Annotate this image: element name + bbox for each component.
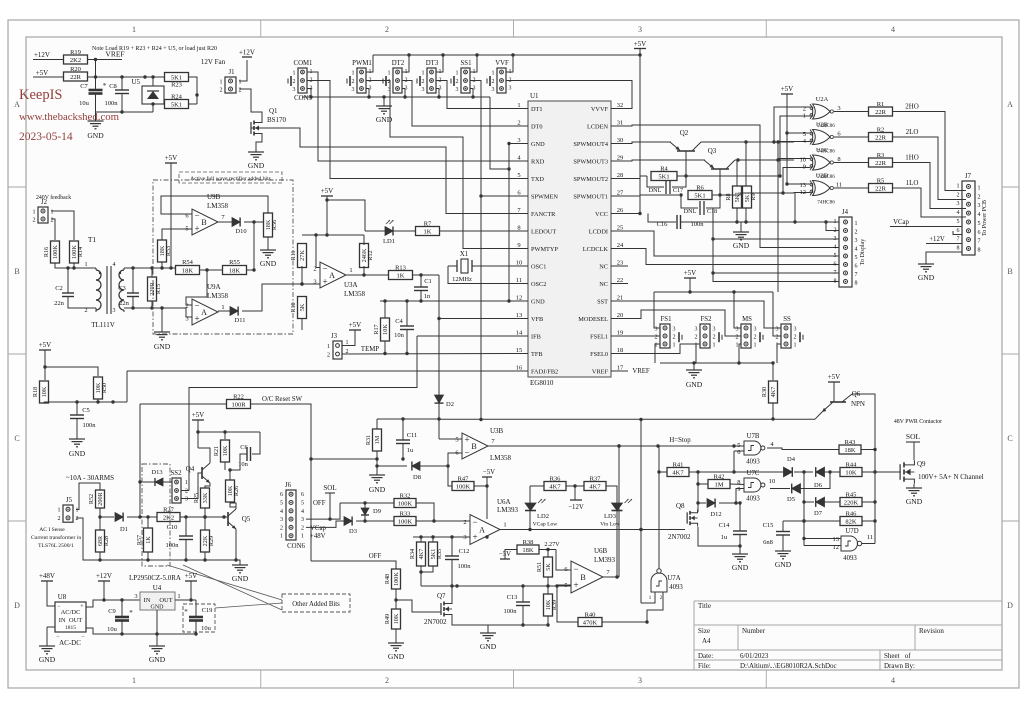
wire R36 left <box>530 485 544 487</box>
svg-text:3: 3 <box>185 497 188 503</box>
ground R49 <box>388 639 405 661</box>
svg-text:SOL: SOL <box>906 432 921 441</box>
wire xor B4 input <box>778 141 810 144</box>
resistor R38 <box>517 539 539 554</box>
wire +5V rect drop <box>170 163 172 268</box>
resistor R1 <box>869 101 893 116</box>
svg-text:7: 7 <box>957 237 960 243</box>
svg-text:R17: R17 <box>373 324 380 334</box>
capacitor C8 <box>105 83 130 107</box>
svg-text:2: 2 <box>463 519 466 526</box>
svg-text:R19: R19 <box>70 49 81 56</box>
svg-text:1: 1 <box>132 25 136 34</box>
diode D7 <box>814 497 824 517</box>
svg-text:Active full wave rectifier add: Active full wave rectifier added bits <box>190 175 271 182</box>
wire U3B out H-Stop <box>488 444 744 447</box>
svg-text:100n: 100n <box>458 563 472 570</box>
svg-text:33K: 33K <box>202 492 209 503</box>
svg-text:T1: T1 <box>88 235 97 244</box>
wire C10 bottom <box>185 540 187 561</box>
wire T1 top node <box>55 263 96 270</box>
svg-text:GND: GND <box>87 131 104 140</box>
wire spwm pulldown stub <box>794 193 796 222</box>
svg-text:22n: 22n <box>119 300 130 307</box>
wire Q7 gate wire <box>396 600 441 612</box>
svg-text:74HC86: 74HC86 <box>817 200 835 206</box>
crystal X1 <box>452 250 472 283</box>
wire U4 out wire <box>175 598 196 601</box>
svg-text:OSC1: OSC1 <box>531 263 546 270</box>
svg-text:VVVF: VVVF <box>591 106 609 113</box>
wire FS1 pin3 drop <box>654 292 660 328</box>
wire R42 out <box>730 483 744 486</box>
svg-text:+5V: +5V <box>36 69 49 77</box>
svg-text:SPWMEN: SPWMEN <box>531 193 558 200</box>
svg-text:13: 13 <box>516 312 523 319</box>
wire R47 right <box>474 484 489 487</box>
svg-text:6: 6 <box>855 264 858 270</box>
connector SS2 <box>171 470 188 503</box>
svg-text:4: 4 <box>834 245 837 251</box>
svg-text:9: 9 <box>803 163 806 170</box>
wire R4 to Q2 base <box>677 175 686 177</box>
wire R9 bottom <box>744 208 747 224</box>
svg-text:VREF: VREF <box>105 50 124 59</box>
caption current transformer <box>31 534 82 541</box>
svg-text:2: 2 <box>293 79 296 85</box>
svg-text:1: 1 <box>239 79 242 85</box>
svg-text:1: 1 <box>422 70 425 76</box>
svg-text:4093: 4093 <box>669 584 683 591</box>
wire LCDEN wire <box>611 125 839 248</box>
svg-text:U3A: U3A <box>344 281 358 289</box>
svg-text:5K1: 5K1 <box>694 192 705 199</box>
capacitor C17 dnl loop <box>647 176 686 194</box>
wire R13 to VFB vertical <box>413 273 439 276</box>
svg-text:32: 32 <box>617 102 624 109</box>
wire C9 bottom <box>121 621 123 635</box>
wire U8 gnd <box>47 626 55 628</box>
svg-text:R8: R8 <box>725 193 732 200</box>
wire R21 top <box>224 432 226 439</box>
svg-text:100R: 100R <box>231 401 246 408</box>
svg-text:10: 10 <box>769 478 776 485</box>
svg-text:D7: D7 <box>814 510 823 517</box>
svg-text:U7C: U7C <box>747 470 760 477</box>
wire U7C out wire <box>770 488 790 490</box>
wire D11 out to U3A <box>242 284 320 311</box>
diode D13 <box>151 469 163 486</box>
wire Q5 base <box>210 515 228 518</box>
nand gate U7A <box>649 569 684 601</box>
svg-text:+: + <box>472 532 477 542</box>
svg-text:LD1: LD1 <box>383 238 395 245</box>
wire U7D pin12 <box>804 545 841 547</box>
capacitor C19 in dashed box <box>183 604 215 632</box>
svg-text:J7: J7 <box>965 173 972 180</box>
wire U7B pin6 drop <box>733 451 735 472</box>
svg-text:3: 3 <box>352 87 355 93</box>
svg-text:10u: 10u <box>107 626 118 633</box>
wire FANCTR to Q1 gate <box>251 128 528 214</box>
svg-text:1: 1 <box>349 267 352 274</box>
svg-text:NC: NC <box>599 263 608 270</box>
wire C11 rail <box>377 417 439 420</box>
title block <box>694 601 1002 670</box>
wire R8 bottom <box>735 208 738 224</box>
wire SS2 pin2 wire <box>181 490 189 492</box>
svg-text:R43: R43 <box>845 439 856 446</box>
ground C16 <box>733 228 750 250</box>
svg-text:7: 7 <box>855 272 858 278</box>
svg-text:3: 3 <box>638 25 642 34</box>
svg-text:12MHz: 12MHz <box>452 276 472 283</box>
svg-text:1: 1 <box>834 219 837 225</box>
svg-text:2: 2 <box>834 228 837 234</box>
svg-text:VCap: VCap <box>893 219 909 226</box>
svg-text:−: − <box>322 263 327 273</box>
svg-text:4K7: 4K7 <box>589 483 601 490</box>
wire R7 to LEDOUT <box>439 230 528 232</box>
ground <box>87 117 104 140</box>
resistor R39 <box>544 594 559 616</box>
power +5V latch <box>192 411 205 420</box>
svg-text:U3B: U3B <box>490 427 504 435</box>
svg-text:3: 3 <box>422 87 425 93</box>
transistor Q6 <box>822 390 865 412</box>
net label OFF pin5 <box>313 500 326 507</box>
wire crystal loop <box>448 266 528 284</box>
wire R48 bottom <box>394 589 397 609</box>
net label TEMP <box>361 346 379 353</box>
svg-text:D:\Altium\..\EG8010R2A.SchDoc: D:\Altium\..\EG8010R2A.SchDoc <box>740 662 837 670</box>
resistor R41 <box>667 462 689 477</box>
svg-text:A: A <box>1007 100 1013 109</box>
wire U7B pin6 stub <box>734 450 744 452</box>
xor gate U2A <box>803 96 841 129</box>
svg-text:21: 21 <box>617 295 624 302</box>
wire Q6 collector wire <box>852 394 877 451</box>
wire U3A pin3 wire <box>262 282 320 285</box>
svg-text:5: 5 <box>855 255 858 261</box>
wire C2 bottom <box>68 297 96 309</box>
svg-text:U8: U8 <box>58 593 67 601</box>
wire C3 branch <box>132 268 134 293</box>
svg-text:10u: 10u <box>201 625 212 632</box>
power +12V ACDC <box>96 572 112 581</box>
wire U8 out wire <box>86 598 140 607</box>
connector DT2 <box>383 60 408 93</box>
wire R34 top <box>420 537 422 542</box>
op-amp U6A <box>463 498 518 545</box>
svg-text:R9: R9 <box>750 193 757 200</box>
caption 100V 5A N Channel <box>918 473 984 481</box>
dash-dot box added bits <box>142 464 170 566</box>
svg-text:+5V: +5V <box>781 85 794 93</box>
svg-text:R49: R49 <box>384 614 391 624</box>
svg-text:1: 1 <box>132 676 136 685</box>
net label 1LO <box>906 179 919 187</box>
wire U2B out <box>834 136 869 138</box>
wire +5V branch to LD1 <box>327 200 365 231</box>
wire Q7 source <box>452 618 488 625</box>
svg-text:10n: 10n <box>394 332 405 339</box>
svg-text:8: 8 <box>837 156 840 163</box>
net label SOL Q9 <box>906 432 921 442</box>
svg-text:Other Added Bits: Other Added Bits <box>292 601 340 608</box>
wire gnd bus to U1 pin3 <box>490 97 528 171</box>
svg-text:8: 8 <box>957 246 960 252</box>
wire R30 top <box>772 363 774 380</box>
wire diode column <box>802 472 805 546</box>
nand gate U7D <box>833 528 862 562</box>
diode D8 <box>412 462 421 482</box>
svg-text:GND: GND <box>480 642 497 651</box>
wire VCC C16 rail <box>648 214 676 223</box>
svg-text:*: * <box>129 609 133 617</box>
svg-text:+5V: +5V <box>828 373 841 381</box>
svg-text:3: 3 <box>517 137 520 144</box>
svg-text:LM393: LM393 <box>594 556 616 564</box>
wire R56 bottom <box>267 237 269 248</box>
resistor R25 <box>193 488 210 508</box>
svg-text:24: 24 <box>617 242 624 249</box>
svg-text:1: 1 <box>301 534 304 540</box>
wire R35 top <box>432 537 434 542</box>
svg-text:D2: D2 <box>446 401 454 408</box>
svg-text:FS2: FS2 <box>701 316 713 323</box>
wire xor A1 input <box>778 116 810 178</box>
svg-text:Q3: Q3 <box>708 147 717 155</box>
svg-text:GND: GND <box>732 563 749 572</box>
capacitor C18 dnl loop <box>681 195 720 215</box>
transformer T1 <box>85 235 125 329</box>
net label O/C Reset SW <box>262 396 303 403</box>
svg-text:−: − <box>464 448 469 458</box>
svg-text:3: 3 <box>957 201 960 207</box>
svg-text:LM358: LM358 <box>490 454 512 462</box>
svg-text:~10A - 30ARMS: ~10A - 30ARMS <box>66 474 114 482</box>
svg-text:6: 6 <box>280 492 283 498</box>
wire R23 to right rail <box>188 77 199 104</box>
wire to R50 <box>45 367 98 376</box>
wire U7C pin9 stub <box>734 489 744 505</box>
wire C5 bottom <box>76 419 78 438</box>
ground under Q1 <box>248 148 265 170</box>
wire R55 right <box>246 269 254 271</box>
wire Q6 emitter wire <box>815 412 822 419</box>
op-amp U3B <box>455 427 511 462</box>
resistor R4 <box>651 166 677 181</box>
svg-text:LD3: LD3 <box>604 513 616 520</box>
wire Q9 source <box>913 484 915 486</box>
svg-text:2: 2 <box>776 334 779 340</box>
led LD1 <box>383 220 395 245</box>
wire SS pin1 drop <box>777 344 781 363</box>
svg-text:23: 23 <box>617 260 624 267</box>
svg-text:GND: GND <box>918 273 935 282</box>
svg-text:X1: X1 <box>460 250 469 258</box>
resistor R53 <box>158 240 173 262</box>
svg-text:2: 2 <box>280 525 283 531</box>
wire U3B pin5 <box>439 438 462 440</box>
svg-text:2: 2 <box>352 79 355 85</box>
wire C7 to gnd rail <box>95 94 97 113</box>
wire SPWMOUT4 wire <box>611 142 671 144</box>
wire C6 left <box>230 454 247 470</box>
wire +5V latch drop <box>196 420 199 448</box>
svg-text:MS: MS <box>742 316 752 323</box>
wire D10 out <box>244 220 264 223</box>
wire U5 bottom <box>152 104 154 112</box>
svg-text:FSEL0: FSEL0 <box>590 351 608 358</box>
power +5V Q6 <box>828 373 841 382</box>
wire R12 top <box>363 235 365 245</box>
wire R18 bottom <box>43 402 45 403</box>
wire minus5 R38 <box>505 550 517 560</box>
wire LCDDI wire <box>611 231 839 256</box>
power +12V <box>33 51 52 60</box>
svg-text:SS: SS <box>783 316 791 323</box>
svg-text:2: 2 <box>655 334 658 340</box>
svg-text:FANCTR: FANCTR <box>531 211 556 218</box>
svg-text:1K: 1K <box>424 228 432 235</box>
svg-text:R23: R23 <box>171 82 182 89</box>
wire R37 right <box>606 486 617 503</box>
svg-text:SS2: SS2 <box>171 470 183 477</box>
wire R22 to OFF net <box>250 404 313 561</box>
svg-text:R4: R4 <box>660 166 668 173</box>
svg-text:1: 1 <box>754 342 757 348</box>
svg-text:J5: J5 <box>66 497 73 504</box>
power +5V U3A <box>321 187 334 196</box>
wire R39 bottom <box>546 616 549 627</box>
mosfet Q8 <box>668 502 698 541</box>
power +5V <box>33 69 52 77</box>
svg-text:GND: GND <box>369 485 386 494</box>
svg-text:2: 2 <box>33 217 36 223</box>
wire SPWMOUT2 ext <box>686 175 780 177</box>
svg-text:25: 25 <box>617 225 624 232</box>
svg-text:2: 2 <box>736 334 739 340</box>
svg-text:2: 2 <box>855 230 858 236</box>
svg-text:18K: 18K <box>844 447 856 454</box>
capacitor C10 <box>166 524 194 549</box>
wire VVF pin1 drop <box>506 55 513 72</box>
svg-text:A: A <box>479 526 485 535</box>
resistor R21 <box>213 440 230 462</box>
svg-text:3: 3 <box>834 236 837 242</box>
svg-text:+5V: +5V <box>321 187 334 195</box>
svg-text:4: 4 <box>280 509 283 515</box>
svg-text:LM358: LM358 <box>207 202 229 210</box>
svg-text:R18: R18 <box>32 387 39 397</box>
svg-text:A: A <box>329 271 335 280</box>
svg-text:R3: R3 <box>877 152 885 159</box>
wire C4 branch <box>406 301 408 326</box>
wire R46 row <box>783 519 840 522</box>
svg-text:Q1: Q1 <box>269 107 278 115</box>
svg-text:C: C <box>14 434 19 443</box>
svg-text:VREF: VREF <box>592 368 609 375</box>
svg-text:100n: 100n <box>105 100 119 107</box>
wire R24 left <box>153 103 165 105</box>
svg-text:5K: 5K <box>545 563 552 571</box>
svg-text:DT2: DT2 <box>392 60 405 67</box>
capacitor C14 <box>719 522 747 541</box>
capacitor C11 <box>396 432 417 454</box>
power -5V R38 <box>499 551 511 559</box>
wire R57 top <box>147 517 149 528</box>
svg-text:200R: 200R <box>97 491 104 505</box>
net label 1HO <box>905 154 919 162</box>
svg-text:C3: C3 <box>118 285 126 292</box>
svg-text:5: 5 <box>517 172 520 179</box>
wire R32 out <box>416 503 436 523</box>
wire Q2 collector to xor <box>701 140 794 143</box>
wire D1 wire <box>100 516 114 518</box>
wire gnd bus y97 <box>302 95 490 98</box>
wire U6B pin6 <box>556 550 571 571</box>
svg-text:1: 1 <box>978 186 981 192</box>
svg-text:3: 3 <box>655 326 658 332</box>
wire +5V ACDC drop <box>190 581 192 600</box>
svg-text:LCDDI: LCDDI <box>589 228 608 235</box>
svg-text:48V PWR Contactor: 48V PWR Contactor <box>894 419 942 425</box>
svg-text:H=Stop: H=Stop <box>669 437 691 444</box>
ground J7 <box>918 260 935 282</box>
svg-text:22R: 22R <box>875 160 887 167</box>
power +48V <box>39 572 55 581</box>
svg-text:3: 3 <box>794 326 797 332</box>
resistor R20 <box>64 66 88 81</box>
svg-text:C2: C2 <box>55 285 63 292</box>
svg-text:R5: R5 <box>877 178 885 185</box>
svg-text:Q7: Q7 <box>437 592 446 600</box>
net label 10A-30ARMS <box>66 474 114 482</box>
wire C13 bottom <box>522 606 524 626</box>
svg-text:C19: C19 <box>202 607 213 614</box>
svg-text:10K: 10K <box>222 445 229 456</box>
caption 48V PWR Contactor <box>894 419 942 425</box>
svg-text:J2: J2 <box>41 199 48 206</box>
svg-text:J4: J4 <box>842 209 849 216</box>
wire IFB wire <box>417 335 528 337</box>
svg-text:2HO: 2HO <box>905 103 919 111</box>
wire R21 bottom <box>225 462 232 472</box>
svg-text:+5V: +5V <box>192 411 205 419</box>
svg-text:R36: R36 <box>550 476 562 483</box>
svg-text:1: 1 <box>803 112 806 119</box>
wire C8 branch <box>121 77 123 90</box>
svg-text:GND: GND <box>248 161 265 170</box>
svg-text:100V+ 5A+ N Channel: 100V+ 5A+ N Channel <box>918 473 984 481</box>
svg-text:FS1: FS1 <box>661 316 672 323</box>
svg-text:R42: R42 <box>714 474 725 481</box>
svg-text:+: + <box>322 277 327 287</box>
wire LD2 top <box>529 486 531 503</box>
svg-text:TEMP: TEMP <box>361 346 379 353</box>
capacitor C16 <box>657 215 705 229</box>
wire J6 pin3 wire <box>306 503 340 519</box>
wire R43 right <box>861 449 875 451</box>
wire gnd column J4 <box>711 208 839 282</box>
svg-text:2: 2 <box>85 308 88 314</box>
svg-text:Q8: Q8 <box>676 502 685 510</box>
svg-text:R45: R45 <box>846 492 857 499</box>
svg-text:16: 16 <box>516 365 523 372</box>
wire bottom rail <box>96 102 155 113</box>
